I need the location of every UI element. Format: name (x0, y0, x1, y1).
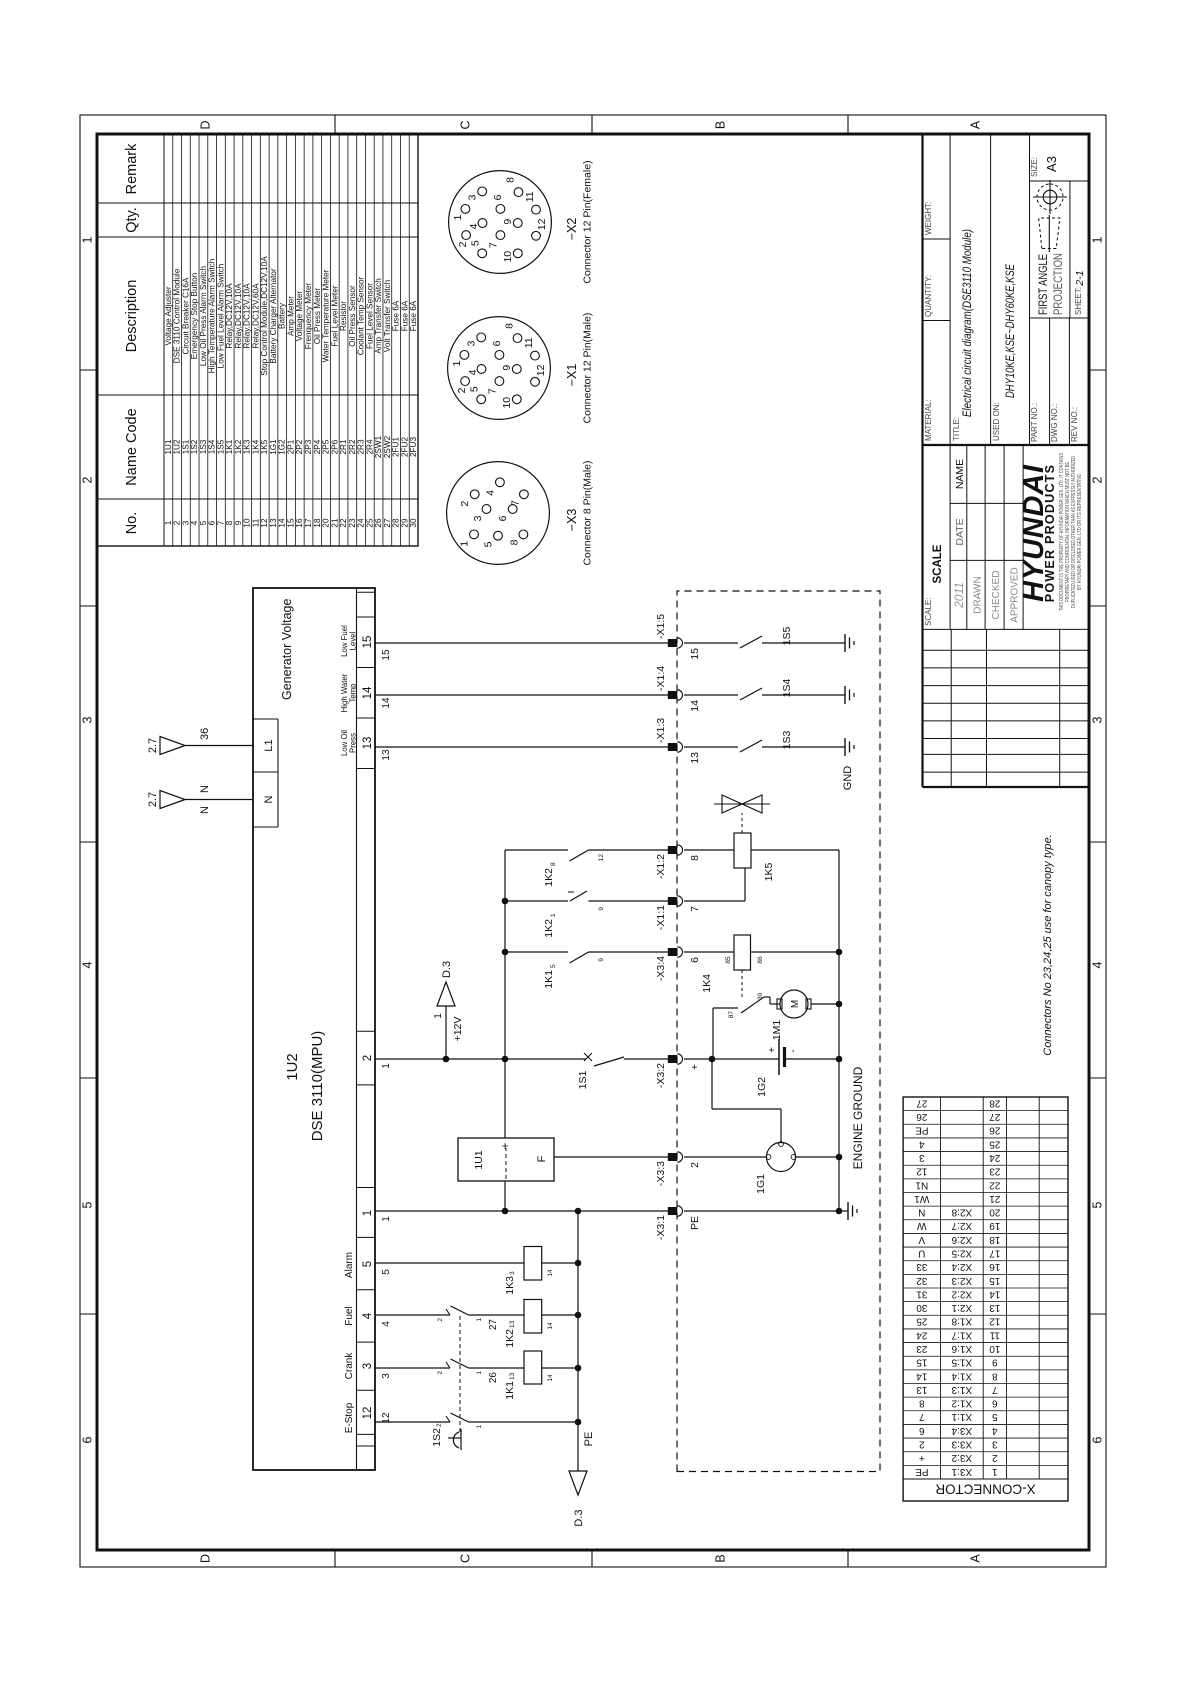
svg-text:2: 2 (1091, 476, 1105, 483)
svg-text:21: 21 (989, 1193, 1001, 1204)
svg-text:6: 6 (497, 515, 509, 521)
svg-text:1: 1 (992, 1466, 998, 1477)
svg-text:Low Oil Press Alarm Switch: Low Oil Press Alarm Switch (199, 266, 208, 367)
svg-text:2FU3: 2FU3 (409, 437, 418, 457)
svg-text:1U1: 1U1 (473, 1150, 485, 1169)
svg-text:1G1: 1G1 (755, 1174, 767, 1194)
svg-text:12: 12 (260, 518, 269, 528)
svg-text:4: 4 (362, 1312, 374, 1319)
svg-text:3: 3 (1091, 716, 1105, 723)
svg-text:−X1: −X1 (565, 364, 579, 387)
svg-text:NAME: NAME (954, 459, 966, 489)
svg-text:4: 4 (468, 223, 480, 229)
svg-text:14: 14 (989, 1288, 1001, 1299)
svg-text:1K1: 1K1 (504, 1381, 516, 1400)
svg-text:N: N (199, 785, 211, 793)
svg-text:6: 6 (81, 1436, 95, 1443)
svg-text:X2:1: X2:1 (951, 1302, 972, 1313)
svg-text:2R3: 2R3 (357, 439, 366, 454)
svg-text:11: 11 (524, 191, 536, 202)
svg-text:15: 15 (362, 636, 374, 649)
svg-text:3: 3 (919, 1152, 925, 1163)
svg-text:5: 5 (470, 240, 482, 246)
svg-text:14: 14 (916, 1370, 928, 1381)
svg-text:M: M (790, 1000, 801, 1008)
svg-text:2-1: 2-1 (1074, 270, 1086, 286)
svg-text:X2:4: X2:4 (951, 1261, 972, 1272)
svg-text:Frenquency Meter: Frenquency Meter (304, 283, 313, 350)
svg-text:1K2: 1K2 (234, 439, 243, 454)
svg-text:N: N (263, 795, 275, 803)
svg-text:1S1: 1S1 (181, 439, 190, 454)
svg-text:5: 5 (469, 386, 481, 392)
svg-text:V: V (918, 1234, 925, 1245)
svg-text:1: 1 (550, 913, 557, 917)
wire 15 to pin X1:5 (375, 642, 668, 644)
svg-text:Electrical circuit diagram(DSE: Electrical circuit diagram(DSE3110 Modul… (962, 229, 974, 417)
svg-text:2: 2 (689, 1162, 701, 1168)
svg-text:2SW1: 2SW1 (374, 435, 383, 458)
svg-text:Connector 12 Pin(Female): Connector 12 Pin(Female) (582, 160, 594, 283)
svg-text:Amp Meter: Amp Meter (286, 296, 295, 336)
svg-text:4: 4 (992, 1425, 998, 1436)
svg-text:14: 14 (689, 700, 701, 712)
svg-text:1: 1 (433, 1013, 444, 1019)
svg-text:1K2: 1K2 (504, 1329, 516, 1348)
svg-text:2: 2 (173, 520, 182, 525)
svg-text:2: 2 (919, 1438, 925, 1449)
svg-text:2: 2 (459, 501, 471, 507)
svg-text:1G2: 1G2 (278, 439, 287, 455)
svg-text:2: 2 (456, 387, 468, 393)
svg-text:PART NO.:: PART NO.: (1030, 403, 1039, 442)
svg-text:16: 16 (295, 518, 304, 528)
svg-text:Fuel Level Meter: Fuel Level Meter (330, 285, 339, 346)
svg-text:2: 2 (457, 241, 469, 247)
svg-text:4: 4 (919, 1138, 925, 1149)
connector pin X1:4 (655, 666, 701, 712)
svg-text:3: 3 (466, 340, 478, 346)
connector pin X3:4 (655, 947, 701, 981)
svg-text:32: 32 (916, 1275, 928, 1286)
svg-text:10: 10 (243, 518, 252, 528)
svg-text:1S2: 1S2 (431, 1428, 443, 1447)
svg-text:X1:8: X1:8 (951, 1316, 972, 1327)
svg-text:12: 12 (989, 1316, 1001, 1327)
svg-text:1S5: 1S5 (781, 627, 793, 646)
svg-text:4: 4 (381, 1321, 392, 1327)
svg-text:2.7: 2.7 (147, 738, 159, 753)
svg-text:−X3: −X3 (565, 509, 579, 532)
svg-text:2P3: 2P3 (304, 439, 313, 454)
svg-text:7: 7 (488, 242, 500, 248)
svg-text:DHY10KE,KSE~DHY60KE,KSE: DHY10KE,KSE~DHY60KE,KSE (1003, 263, 1017, 398)
svg-text:POWER PRODUCTS: POWER PRODUCTS (1043, 464, 1057, 603)
svg-text:22: 22 (339, 518, 348, 528)
svg-text:Relay,DC12V,10A: Relay,DC12V,10A (243, 283, 252, 349)
svg-text:X1:2: X1:2 (951, 1398, 972, 1409)
svg-text:PE: PE (915, 1466, 929, 1477)
svg-text:17: 17 (989, 1247, 1001, 1258)
svg-text:1K3: 1K3 (504, 1276, 516, 1295)
svg-text:26: 26 (488, 1372, 499, 1384)
svg-text:2P5: 2P5 (322, 439, 331, 454)
svg-text:Generator Voltage: Generator Voltage (280, 598, 294, 700)
svg-text:1S4: 1S4 (781, 679, 793, 698)
svg-text:12: 12 (362, 1407, 374, 1420)
svg-text:X1:1: X1:1 (951, 1411, 972, 1422)
svg-text:-X1:1: -X1:1 (655, 905, 667, 930)
svg-text:15: 15 (381, 649, 392, 661)
svg-text:Relay,DC12V,10A: Relay,DC12V,10A (225, 283, 234, 349)
svg-text:19: 19 (989, 1220, 1001, 1231)
svg-text:13: 13 (916, 1384, 928, 1395)
svg-text:6: 6 (919, 1425, 925, 1436)
svg-text:20: 20 (322, 518, 331, 528)
svg-text:Resistor: Resistor (339, 301, 348, 331)
svg-text:13: 13 (381, 749, 392, 761)
svg-text:DRAWN: DRAWN (973, 576, 984, 613)
relay 1K4 coil (684, 935, 839, 1000)
svg-text:13: 13 (269, 518, 278, 528)
svg-text:5: 5 (992, 1411, 998, 1422)
svg-text:X2:8: X2:8 (951, 1207, 972, 1218)
svg-text:7: 7 (689, 906, 701, 912)
svg-text:2P4: 2P4 (313, 439, 322, 454)
svg-text:27: 27 (916, 1097, 928, 1108)
svg-text:X1:4: X1:4 (951, 1370, 972, 1381)
svg-text:3: 3 (992, 1438, 998, 1449)
svg-text:8: 8 (689, 855, 701, 861)
svg-text:C: C (459, 1554, 473, 1563)
svg-text:11: 11 (989, 1329, 1000, 1340)
svg-text:ENGINE GROUND: ENGINE GROUND (851, 1066, 865, 1169)
svg-text:U: U (918, 1247, 925, 1258)
wire 14 to pin X1:4 (375, 694, 668, 696)
svg-text:1S4: 1S4 (208, 439, 217, 454)
connector X1 (12 Pin Male view) (448, 313, 594, 424)
svg-text:X2:6: X2:6 (951, 1234, 972, 1245)
svg-text:15: 15 (689, 648, 701, 660)
connector pin X1:2 (655, 845, 701, 879)
svg-text:Voltage Meter: Voltage Meter (295, 290, 304, 341)
svg-text:9: 9 (502, 219, 514, 225)
relay coil 1K2 (504, 1300, 578, 1348)
starter contact 30/87 of 1K4 (713, 992, 780, 1059)
svg-text:WEIGHT:: WEIGHT: (924, 202, 933, 235)
starter motor 1M1 (771, 990, 839, 1040)
svg-text:Crank: Crank (344, 1352, 355, 1380)
svg-text:36: 36 (199, 728, 211, 740)
svg-text:+12V: +12V (452, 1017, 464, 1042)
svg-text:1G2: 1G2 (756, 1077, 768, 1097)
svg-text:13: 13 (689, 752, 701, 764)
svg-text:31: 31 (916, 1288, 928, 1299)
svg-text:4: 4 (190, 520, 199, 525)
wire L1 (net 36) to off-sheet arrow (147, 728, 253, 755)
svg-text:W: W (917, 1220, 927, 1231)
svg-text:L1: L1 (263, 739, 275, 751)
svg-text:SCALE: SCALE (932, 544, 944, 583)
svg-text:2.7: 2.7 (147, 792, 159, 807)
svg-text:-X1:5: -X1:5 (655, 614, 667, 639)
svg-text:8: 8 (503, 323, 515, 329)
svg-text:N: N (199, 806, 211, 814)
svg-text:-: - (788, 1049, 799, 1052)
svg-text:4: 4 (1091, 961, 1105, 968)
svg-text:1U2: 1U2 (173, 439, 182, 454)
ground symbol (1S3) (844, 738, 846, 756)
svg-text:Fuse 6A: Fuse 6A (409, 300, 418, 331)
svg-text:4: 4 (81, 961, 95, 968)
svg-text:3: 3 (381, 1373, 392, 1379)
svg-text:N1: N1 (915, 1179, 928, 1190)
svg-text:BY HYUNDAI POWER GEN. LTD OR I: BY HYUNDAI POWER GEN. LTD OR ITS REPRESE… (1077, 474, 1083, 590)
svg-text:11: 11 (251, 518, 260, 527)
svg-text:Name Code: Name Code (124, 408, 140, 485)
svg-text:14: 14 (362, 686, 374, 699)
svg-text:Fuse 6A: Fuse 6A (400, 300, 409, 331)
svg-text:6: 6 (689, 957, 701, 963)
svg-text:12: 12 (536, 218, 548, 230)
wire Alarm terminal 5 to relay coil 1K3 (375, 1262, 524, 1264)
svg-text:Press: Press (349, 733, 358, 753)
svg-text:9: 9 (598, 907, 605, 911)
svg-text:1K5: 1K5 (260, 439, 269, 454)
svg-text:Volt Transfer Switch: Volt Transfer Switch (383, 279, 392, 352)
svg-text:X2:2: X2:2 (951, 1288, 972, 1299)
svg-text:+: + (767, 1047, 778, 1053)
svg-text:−X2: −X2 (565, 218, 579, 241)
svg-text:SIZE:: SIZE: (1030, 157, 1039, 177)
title block (923, 135, 1090, 787)
svg-text:SHEET:: SHEET: (1074, 287, 1083, 315)
contact row Fuel (wire 27) (375, 1306, 524, 1330)
svg-text:PE: PE (689, 1216, 701, 1230)
svg-text:-X3:4: -X3:4 (655, 956, 667, 981)
svg-text:Fuel Level Sensor: Fuel Level Sensor (365, 283, 374, 349)
svg-text:9: 9 (234, 520, 243, 525)
svg-text:2: 2 (81, 476, 95, 483)
battery 1G2 (684, 1039, 839, 1097)
svg-text:1: 1 (459, 541, 471, 547)
svg-text:4: 4 (467, 369, 479, 375)
svg-text:5: 5 (199, 520, 208, 525)
svg-text:B: B (714, 1554, 728, 1562)
svg-text:REV NO.:: REV NO.: (1070, 407, 1079, 442)
svg-text:1K1: 1K1 (225, 439, 234, 454)
svg-text:13: 13 (509, 1320, 516, 1328)
wire N to off-sheet arrow (147, 785, 253, 814)
engine interface dashed boundary (677, 591, 880, 1472)
svg-text:2FU2: 2FU2 (400, 437, 409, 457)
svg-text:1K2: 1K2 (543, 868, 555, 887)
svg-text:W1: W1 (914, 1193, 929, 1204)
svg-text:1: 1 (476, 1371, 483, 1375)
svg-text:Circuit Breaker C16A: Circuit Breaker C16A (181, 277, 190, 354)
off-sheet arrow +12V (D.3) (433, 961, 464, 1059)
svg-text:29: 29 (400, 518, 409, 528)
svg-text:Low Fuel Level Alarm Switch: Low Fuel Level Alarm Switch (216, 263, 225, 368)
relay contact 1K2 (wire 7) (505, 891, 668, 938)
svg-text:X1:6: X1:6 (951, 1343, 972, 1354)
svg-text:High Temperature Alarm Switch: High Temperature Alarm Switch (208, 258, 217, 373)
svg-text:7: 7 (992, 1384, 998, 1395)
ground symbol (1S5) (844, 634, 846, 652)
svg-text:9: 9 (992, 1357, 998, 1368)
wire PE horizontal run to off-sheet arrow D.3 (569, 1211, 595, 1527)
svg-text:1S1: 1S1 (577, 1071, 589, 1090)
svg-text:1K1: 1K1 (543, 970, 555, 989)
svg-text:Connectors No 23,24,25 use for: Connectors No 23,24,25 use for canopy ty… (1042, 834, 1054, 1055)
svg-text:16: 16 (989, 1261, 1001, 1272)
connector pin X1:3 (655, 718, 701, 764)
svg-text:15: 15 (286, 518, 295, 528)
svg-text:+: + (689, 1064, 701, 1070)
svg-text:X-CONNECTOR: X-CONNECTOR (935, 1482, 1036, 1497)
battery isolator switch 1S1 (577, 1053, 668, 1089)
svg-text:-X3:2: -X3:2 (655, 1063, 667, 1088)
svg-text:8: 8 (504, 177, 516, 183)
mechanical link (dashed) of 1S2 (459, 1315, 461, 1432)
svg-text:PE: PE (583, 1432, 595, 1447)
svg-text:Alarm: Alarm (344, 1252, 355, 1278)
svg-text:86: 86 (757, 956, 764, 964)
svg-text:1S5: 1S5 (216, 439, 225, 454)
svg-text:27: 27 (488, 1319, 499, 1331)
svg-text:1: 1 (81, 236, 95, 243)
svg-text:24: 24 (357, 518, 366, 528)
svg-text:No.: No. (124, 512, 140, 535)
svg-text:Battery Charger Alternator: Battery Charger Alternator (269, 268, 278, 363)
svg-text:2R2: 2R2 (348, 439, 357, 454)
svg-text:1: 1 (164, 520, 173, 525)
svg-text:DWG NO.:: DWG NO.: (1050, 404, 1059, 442)
svg-text:8: 8 (919, 1398, 925, 1409)
svg-text:1S3: 1S3 (199, 439, 208, 454)
svg-text:2: 2 (436, 1423, 443, 1427)
svg-text:PE: PE (915, 1125, 929, 1136)
svg-text:X2:7: X2:7 (951, 1220, 972, 1231)
svg-text:2: 2 (437, 1318, 444, 1322)
svg-text:D.3: D.3 (441, 961, 453, 978)
engine ground symbol (839, 1202, 857, 1220)
svg-text:X2:3: X2:3 (951, 1275, 972, 1286)
svg-text:1S2: 1S2 (190, 439, 199, 454)
svg-text:6: 6 (1091, 1436, 1105, 1443)
svg-text:5: 5 (483, 541, 495, 547)
svg-text:1: 1 (381, 1216, 392, 1222)
svg-text:24: 24 (989, 1152, 1001, 1163)
voltage adjuster 1U1 (458, 1138, 668, 1181)
svg-text:+: + (498, 1142, 512, 1149)
svg-text:4: 4 (485, 490, 497, 496)
emergency stop switch 1S2 contact (375, 1413, 578, 1450)
svg-text:Relay,DC12V,60A: Relay,DC12V,60A (251, 283, 260, 349)
svg-text:10: 10 (502, 251, 514, 263)
svg-text:13: 13 (509, 1372, 516, 1380)
low fuel level alarm switch 1S5 (684, 627, 845, 648)
wire number labels at module terminals (381, 649, 392, 1424)
svg-text:12: 12 (916, 1166, 928, 1177)
svg-text:3: 3 (181, 520, 190, 525)
svg-text:Water Temperature Meter: Water Temperature Meter (322, 269, 331, 362)
svg-text:6: 6 (491, 340, 503, 346)
svg-text:28: 28 (989, 1097, 1001, 1108)
svg-text:2R1: 2R1 (339, 439, 348, 454)
svg-text:Remark: Remark (124, 143, 140, 195)
svg-text:8: 8 (992, 1370, 998, 1381)
svg-text:30: 30 (916, 1302, 928, 1313)
svg-text:-X1:2: -X1:2 (655, 854, 667, 879)
svg-text:20: 20 (989, 1207, 1001, 1218)
svg-text:2: 2 (992, 1452, 998, 1463)
wire 13 to pin X1:3 (375, 746, 668, 748)
svg-text:-X1:3: -X1:3 (655, 718, 667, 743)
svg-text:30: 30 (757, 992, 764, 1000)
svg-text:1: 1 (476, 1318, 483, 1322)
connector pin X1:5 (655, 614, 701, 660)
svg-text:Level: Level (349, 631, 358, 650)
high temperature alarm switch 1S4 (684, 679, 845, 700)
svg-text:87: 87 (728, 1011, 735, 1019)
svg-text:23: 23 (348, 518, 357, 528)
contact row Crank (wire 26) (375, 1359, 524, 1383)
svg-text:3: 3 (81, 716, 95, 723)
svg-text:10: 10 (501, 397, 513, 409)
svg-text:2: 2 (362, 1055, 374, 1061)
svg-text:13: 13 (362, 737, 374, 750)
connector X3 (8 Pin Male view) (447, 460, 594, 565)
svg-text:X3:4: X3:4 (951, 1425, 972, 1436)
svg-text:7: 7 (509, 500, 521, 506)
svg-text:5: 5 (381, 1269, 392, 1275)
svg-text:1K5: 1K5 (763, 863, 775, 882)
svg-text:Voltage Adjuster: Voltage Adjuster (164, 286, 173, 345)
stop control module 1K5 (684, 833, 839, 901)
svg-text:21: 21 (330, 518, 339, 528)
relay contact 1K2 (wire 8) (505, 850, 668, 887)
svg-text:25: 25 (989, 1138, 1001, 1149)
svg-text:1: 1 (452, 215, 464, 221)
svg-text:27: 27 (383, 518, 392, 528)
svg-text:85: 85 (725, 956, 732, 964)
DSE 3110 control module 1U2 (253, 588, 375, 1470)
svg-text:5: 5 (81, 1201, 95, 1208)
svg-text:TITLE:: TITLE: (952, 417, 961, 441)
wire bus +12V horizontal (to relay contacts) (502, 850, 509, 1138)
relay coil 1K3 (504, 1247, 578, 1295)
svg-text:8: 8 (509, 539, 521, 545)
svg-text:26: 26 (916, 1111, 928, 1122)
svg-text:Oil Press Meter: Oil Press Meter (313, 288, 322, 345)
svg-text:SCALE:: SCALE: (924, 598, 933, 626)
svg-text:F: F (536, 1155, 548, 1162)
svg-text:1M1: 1M1 (771, 1020, 783, 1041)
svg-text:-X3:3: -X3:3 (655, 1161, 667, 1186)
svg-text:A: A (969, 120, 983, 129)
svg-text:Description: Description (124, 280, 140, 353)
svg-text:27: 27 (989, 1111, 1001, 1122)
svg-text:25: 25 (365, 518, 374, 528)
connector pin X1:1 (655, 896, 701, 930)
svg-text:3: 3 (467, 194, 479, 200)
svg-text:E-Stop: E-Stop (344, 1402, 355, 1433)
svg-text:Stop Control Module,DC12V,10A: Stop Control Module,DC12V,10A (260, 256, 269, 376)
svg-text:5: 5 (362, 1261, 374, 1267)
svg-text:Battery: Battery (278, 302, 287, 329)
svg-text:8: 8 (550, 862, 557, 866)
